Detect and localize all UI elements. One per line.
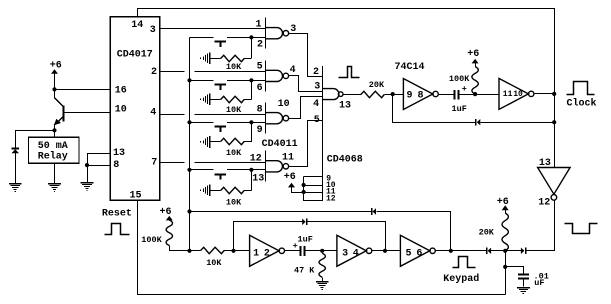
svg-text:12: 12 [250, 154, 262, 165]
wire pin 4 to gate input 8 [160, 114, 266, 116]
junction switch/resistor cell 4 [249, 168, 253, 172]
diode D3 on feedback line [372, 208, 377, 215]
svg-text:10K: 10K [226, 198, 242, 208]
junction 100K node [473, 92, 477, 96]
pin 10 label [115, 105, 127, 116]
label gate pin 6 [257, 83, 263, 94]
wire gate2 output to CD4068 pin 3 [289, 76, 323, 92]
junction bus tap cell 3 [187, 120, 191, 124]
label 100K [449, 74, 470, 84]
wire pin 7 to gate input 12 [160, 162, 266, 164]
label CD4068 pin 12 [326, 195, 336, 204]
svg-text:12: 12 [326, 195, 336, 204]
svg-text:3: 3 [314, 82, 320, 93]
label Reset [102, 209, 132, 220]
ground sideways cell 4 [200, 184, 210, 196]
label 1uF bottom [298, 234, 313, 244]
junction node emitter/relay [52, 128, 56, 132]
power +6 bottom-left 100K [160, 207, 173, 220]
svg-text:10K: 10K [226, 148, 242, 158]
label pin 1 [253, 248, 259, 259]
label pin 9 [407, 91, 413, 102]
svg-text:13: 13 [252, 174, 264, 185]
pin 7 label [151, 157, 157, 168]
capacitor C1 1 uF [455, 84, 467, 100]
wire inv6 out to keypad node [436, 250, 487, 252]
resistor R1 10K [209, 55, 251, 61]
label 10K cell 1 [226, 62, 242, 72]
pin 4 label [150, 107, 156, 118]
svg-text:Reset: Reset [102, 209, 132, 220]
junction bus bottom [187, 249, 191, 253]
pulse symbol Keypad [453, 257, 476, 268]
pulse symbol Clock [567, 82, 595, 95]
wire pin 8 [87, 165, 110, 167]
svg-text:2: 2 [264, 248, 270, 259]
ground relay [48, 183, 61, 192]
junction bundle pin 10 [302, 183, 306, 187]
resistor R4 10K [209, 187, 251, 193]
wire down to ground pin8 [87, 165, 89, 183]
label gate pin 10 [278, 99, 290, 110]
svg-text:Clock: Clock [567, 98, 597, 110]
wire junction to gate input cell 2 [251, 80, 265, 82]
label pin 12 inv [538, 198, 550, 209]
svg-text:1: 1 [253, 248, 259, 259]
label uF [534, 278, 544, 288]
label 20K [369, 80, 385, 90]
wire 10K to inverter 1 [224, 250, 250, 252]
wire junction to gate input cell 1 [251, 37, 265, 39]
svg-text:+6: +6 [467, 49, 479, 60]
label CD4068 pin 10 [326, 181, 336, 190]
wire keypad common bus [189, 38, 191, 251]
ground pins 8/13 [81, 182, 94, 191]
svg-text:14: 14 [131, 20, 143, 31]
svg-text:11: 11 [503, 90, 513, 99]
inverter U4a pins 9,8 [403, 79, 438, 110]
svg-text:+6: +6 [497, 197, 509, 208]
junction .01 cap tap [503, 265, 507, 269]
label gate pin 4 [290, 65, 296, 76]
label pin 13 inv [539, 158, 551, 169]
junction bus tap cell 2 [187, 78, 191, 82]
IC U1 CD4017 body [110, 17, 159, 201]
svg-text:1: 1 [256, 19, 262, 30]
ground sideways cell 2 [200, 93, 210, 105]
svg-text:uF: uF [534, 278, 544, 288]
label CD4068 pin 4 [313, 99, 319, 110]
inverter U4c pins 13,12 pointing down [538, 168, 571, 201]
pulse symbol Reset [105, 224, 130, 235]
junction bundle pin 11 [302, 190, 306, 194]
svg-text:3: 3 [150, 25, 156, 36]
pin 14 label [131, 20, 143, 31]
wire feedback line to keypad node [377, 212, 451, 251]
wire gate3 output to CD4068 pin 4 [289, 97, 323, 119]
svg-text:6: 6 [416, 248, 422, 259]
svg-text:8: 8 [113, 160, 119, 171]
svg-text:13: 13 [113, 148, 125, 159]
junction inv5 in [383, 249, 387, 253]
junction pin8/pin13 [85, 163, 89, 167]
wire cap to inv3 [305, 250, 337, 252]
label CD4011 [262, 139, 298, 150]
resistor R9 47K [319, 253, 325, 281]
resistor R10 20K vertical [502, 213, 508, 251]
resistor R5 20K [361, 91, 385, 97]
label 10K bottom [206, 258, 222, 268]
diode D2 feedback [393, 95, 555, 126]
label gate pin 12 [250, 154, 262, 165]
svg-text:20K: 20K [369, 80, 385, 90]
svg-text:74C14: 74C14 [395, 62, 425, 73]
wire CD4068 output [343, 94, 361, 96]
power +6 bottom-right 20K [497, 197, 509, 213]
wire inv3 out to inv5 [372, 250, 400, 252]
label 50 mA [38, 141, 68, 152]
wire 100K to 10K [169, 250, 200, 252]
power +6 top-left [50, 60, 62, 89]
label gate pin 11 [282, 153, 294, 164]
wire node to inverter 11 [475, 94, 499, 96]
label pin 3 [342, 248, 348, 259]
diode D5 [487, 247, 492, 254]
label .01 [534, 272, 549, 282]
junction switch/resistor cell 3 [249, 120, 253, 124]
junction switch/resistor cell 1 [249, 35, 253, 39]
junction bus tap cell 4 [187, 168, 191, 172]
wire emitter node left to diode [15, 130, 54, 132]
relay K1 50 mA box [29, 137, 80, 163]
label gate pin 8 [257, 105, 263, 116]
wire inverter 12 out down [554, 200, 556, 251]
label Keypad [443, 273, 479, 285]
svg-text:10: 10 [278, 99, 290, 110]
svg-text:+6: +6 [50, 60, 62, 71]
pin 13 label [113, 148, 125, 159]
diode D4 second feedback [234, 218, 386, 250]
label 100K bottom [141, 235, 162, 245]
wire cap to 100K node [458, 94, 475, 96]
svg-text:4: 4 [150, 107, 156, 118]
switch S1 pushbutton [190, 38, 252, 47]
label pin 2 [264, 248, 270, 259]
svg-text:10K: 10K [226, 62, 242, 72]
diode D1 [12, 130, 20, 183]
wire inverter out to cap [439, 94, 454, 96]
label Clock [567, 98, 597, 110]
ground sideways cell 1 [200, 52, 210, 64]
svg-text:13: 13 [539, 158, 551, 169]
label pin 11 [503, 90, 513, 99]
wire CD4068 pins 9-12 bundle [304, 176, 323, 201]
svg-text:1uF: 1uF [452, 104, 467, 114]
label CD4068 pin 13 [339, 100, 351, 111]
diode D6 [521, 247, 526, 254]
svg-text:2: 2 [313, 67, 319, 78]
transistor Q1 [54, 89, 64, 130]
svg-text:4: 4 [290, 65, 296, 76]
label CD4068 pin 3 [314, 82, 320, 93]
ground sideways cell 3 [200, 136, 210, 148]
NAND gate U2a pins 1,2->3 [265, 18, 288, 49]
wire bus to feedback line [187, 209, 371, 213]
pin 16 label [115, 85, 127, 96]
svg-text:47 K: 47 K [294, 266, 315, 276]
svg-text:8: 8 [257, 105, 263, 116]
wire pin 3 to gate input 1 [160, 28, 266, 30]
wire diode to inverter 12 output [525, 250, 554, 252]
svg-text:7: 7 [151, 157, 157, 168]
svg-text:CD4017: CD4017 [117, 50, 153, 61]
label gate pin 3 [290, 24, 296, 35]
svg-text:10K: 10K [206, 258, 222, 268]
NAND gate U2c pins 8,9->10 [265, 103, 288, 134]
ground 47K [316, 281, 329, 290]
label CD4068 [327, 154, 363, 165]
svg-text:1uF: 1uF [298, 234, 313, 244]
junction feedback bus [552, 120, 556, 124]
junction 47K [320, 249, 324, 253]
svg-text:9: 9 [407, 91, 413, 102]
pin 3 label [150, 25, 156, 36]
svg-text:2: 2 [151, 67, 157, 78]
wire diode to 20K node [491, 250, 521, 252]
label CD4017 [117, 50, 153, 61]
junction keypad node [449, 249, 453, 253]
capacitor C3 .01 uF [506, 267, 529, 287]
label gate pin 5 [257, 61, 263, 72]
wire junction to gate input cell 4 [251, 169, 265, 171]
svg-text:CD4068: CD4068 [327, 154, 363, 165]
wire junction to gate input cell 3 [251, 122, 265, 124]
label 10K cell 2 [226, 105, 242, 115]
svg-text:4: 4 [353, 248, 359, 259]
resistor R3 10K [209, 138, 251, 144]
svg-text:16: 16 [115, 85, 127, 96]
inverter U5b pins 3,4 [337, 235, 372, 266]
junction 10K/feedback2 [231, 249, 235, 253]
label gate pin 2 [257, 40, 263, 51]
svg-text:+6: +6 [284, 172, 296, 183]
wire pin 2 to gate input 5 [160, 71, 266, 73]
wire inv1 out to cap [285, 250, 301, 252]
IC U3 CD4068 input bar [322, 66, 324, 201]
wire base to pin 10 [64, 112, 111, 114]
switch S3 pushbutton [190, 123, 252, 132]
label pin 5 [406, 248, 412, 259]
inverter U5a pins 1,2 [250, 235, 285, 266]
capacitor C2 1 uF bottom [293, 241, 305, 256]
label gate pin 9 [257, 125, 263, 136]
wire junction down to resistor cell 4 [251, 170, 253, 191]
wire junction down to resistor cell 3 [251, 122, 253, 142]
pin 8 label [113, 160, 119, 171]
svg-text:4: 4 [313, 99, 319, 110]
label pin 6 [416, 248, 422, 259]
CD4068 gate body [322, 89, 343, 100]
label pin 8 [418, 91, 424, 102]
svg-text:3: 3 [342, 248, 348, 259]
wire inverter 10 out to bus [534, 93, 554, 95]
wire pin 15 reset rail [138, 201, 506, 295]
svg-text:13: 13 [339, 100, 351, 111]
svg-text:+: + [462, 84, 467, 94]
wire clock bus from CD4017 pin 14 across top and down right side [138, 9, 555, 168]
svg-text:Keypad: Keypad [443, 273, 479, 285]
wire gate1 output to CD4068 pin 2 [289, 34, 323, 77]
NAND gate U2b pins 5,6->4 [265, 60, 288, 91]
svg-text:6: 6 [257, 83, 263, 94]
svg-text:5: 5 [314, 115, 320, 126]
label pin 4 [353, 248, 359, 259]
wire gate4 output to CD4068 pin 5 [289, 121, 323, 167]
svg-text:5: 5 [257, 61, 263, 72]
label CD4068 pin 11 [326, 188, 336, 197]
resistor R8 10K bottom [201, 247, 225, 253]
junction 74C14 input/feedback [391, 92, 395, 96]
wire junction down to resistor cell 1 [251, 37, 253, 58]
label 47K [294, 266, 315, 276]
svg-text:10: 10 [115, 105, 127, 116]
svg-text:100K: 100K [449, 74, 470, 84]
wire +6 node to pin 16 [55, 89, 111, 91]
pulse symbol inverted [565, 224, 598, 234]
resistor R6 100K to +6 [467, 49, 479, 94]
pin 15 label [130, 190, 142, 201]
label 74C14 [395, 62, 425, 73]
svg-text:10: 10 [513, 90, 523, 99]
svg-text:20K: 20K [479, 227, 495, 237]
svg-text:10K: 10K [226, 105, 242, 115]
label CD4068 pin 9 [326, 174, 331, 183]
inverter U5c pins 5,6 [400, 235, 435, 266]
wire junction down to resistor cell 2 [251, 80, 253, 99]
svg-text:11: 11 [282, 153, 294, 164]
label 10K cell 4 [226, 198, 242, 208]
wire relay to ground [54, 163, 56, 183]
svg-text:100K: 100K [141, 235, 162, 245]
NAND gate U2d pins 12,13->11 [265, 151, 288, 182]
label gate pin 1 [256, 19, 262, 30]
switch S2 pushbutton [190, 81, 252, 90]
ground .01 cap [517, 287, 530, 294]
wire emitter node to relay [54, 130, 56, 137]
svg-text:2: 2 [257, 40, 263, 51]
wire 20K to 74C14 input [384, 94, 403, 96]
label Relay [38, 150, 68, 162]
ground diode D1 [9, 183, 22, 192]
label 10K cell 3 [226, 148, 242, 158]
resistor R7 100K [166, 220, 172, 251]
pulse symbol at CD4068 output [339, 67, 360, 78]
svg-text:12: 12 [538, 198, 550, 209]
svg-text:8: 8 [418, 91, 424, 102]
wire pin 13 to ground column [88, 154, 111, 166]
label gate pin 13 input [252, 174, 264, 185]
svg-text:15: 15 [130, 190, 142, 201]
pin 2 label [151, 67, 157, 78]
label CD4068 pin 2 [313, 67, 319, 78]
inverter U4b pins 11,10 [499, 78, 534, 109]
label 20K bottom [479, 227, 495, 237]
junction clock bus [552, 92, 556, 96]
svg-text:Relay: Relay [38, 150, 68, 162]
junction node +6/pin16 [52, 87, 56, 91]
label 1 uF [452, 104, 467, 114]
svg-text:9: 9 [257, 125, 263, 136]
wire 20K node down [505, 251, 507, 295]
svg-text:5: 5 [406, 248, 412, 259]
junction 20K node [503, 249, 507, 253]
junction switch/resistor cell 2 [249, 78, 253, 82]
label CD4068 pin 5 [314, 115, 320, 126]
switch S4 pushbutton [190, 170, 252, 180]
resistor R2 10K [209, 96, 251, 102]
label pin 10 [513, 90, 523, 99]
svg-text:CD4011: CD4011 [262, 139, 298, 150]
power +6 CD4068 pins 9-12 [284, 172, 304, 192]
